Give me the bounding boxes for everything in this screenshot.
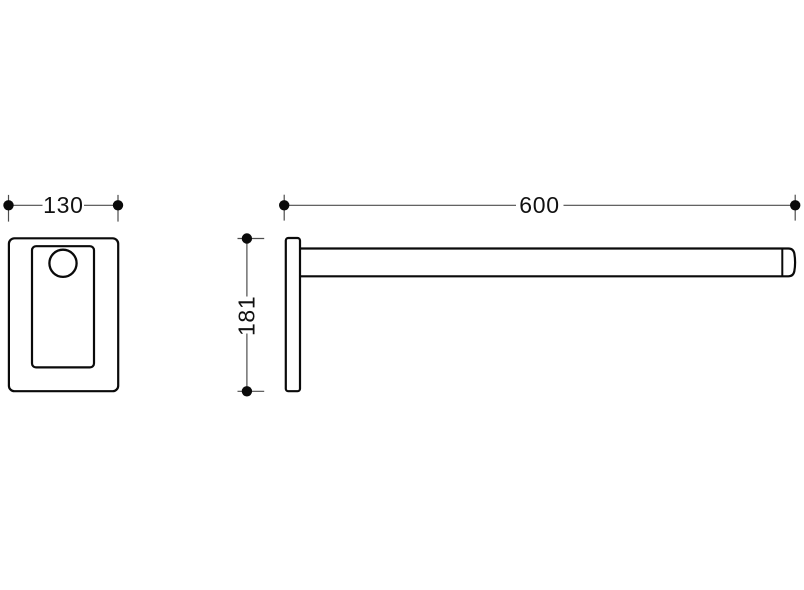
front view: wall plate outer outline (9, 238, 118, 391)
dimension 130: extension ticks (9, 195, 119, 222)
dimension 600: end dots (279, 200, 800, 210)
dimension 181: dimension line (246, 239, 248, 392)
side view: end cap seam line (781, 249, 783, 277)
dimension 600: dimension line (284, 204, 795, 206)
dimension 181: end dots (242, 233, 252, 396)
front view: inner recess outline (32, 246, 94, 367)
dimension 181: extension ticks (238, 239, 265, 392)
svg-text:600: 600 (519, 192, 559, 218)
front view: mounting hole circle (49, 250, 76, 277)
dimension 130: dimension line (9, 204, 119, 206)
svg-text:130: 130 (43, 192, 83, 218)
dimension 600: extension ticks (284, 195, 795, 221)
svg-text:181: 181 (234, 296, 260, 336)
side view: wall plate (profile) (286, 238, 300, 391)
side view: towel bar outline with rounded end cap (300, 249, 795, 277)
dimension 130: end dots (3, 200, 123, 210)
